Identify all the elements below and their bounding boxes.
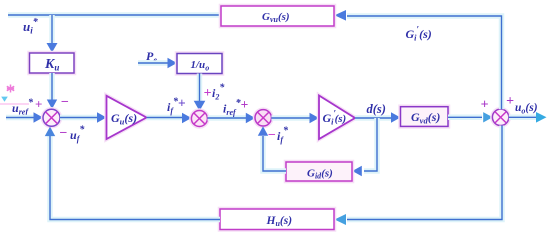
wire: G_vd output to summing junction 4 <box>448 112 493 122</box>
summing junction 3 <box>255 110 271 126</box>
stray mark: pink ghost line above u_ref input <box>0 103 29 105</box>
amplifier block G_u(s) <box>107 96 147 139</box>
wire: u_o tap up to G_vu(s) <box>335 10 502 109</box>
wire: u_o tap down to H_u(s) <box>335 126 503 226</box>
wire: P_e arrow into 1/u_o <box>138 58 177 68</box>
summing junction 4 <box>492 109 508 125</box>
svg-text:Gi′(s): Gi′(s) <box>406 24 432 42</box>
wire: junction 3 to G_i'(s) <box>271 113 319 123</box>
wire: junction 2 to junction 3 <box>208 113 256 123</box>
wire: junction 1 to G_u(s) <box>60 112 107 122</box>
wire: G_u output to summing junction 2 <box>147 113 192 123</box>
svg-text:uo(s): uo(s) <box>515 102 538 115</box>
svg-text:−: − <box>268 128 276 143</box>
wire: u_ref input arrow into junction 1 <box>6 112 43 123</box>
wire: H_u output back to junction 1 <box>45 127 220 220</box>
wire: u_i drop from top line into K_u <box>47 15 58 53</box>
wire: d(s) tap down to G_id <box>352 118 377 176</box>
svg-text:d(s): d(s) <box>367 102 386 116</box>
block 1/u_o <box>177 54 222 74</box>
summing junction 2 <box>191 111 207 127</box>
block G_id(s) <box>286 162 352 181</box>
svg-text:Gu(s): Gu(s) <box>111 111 137 127</box>
stray mark: cyan arrowhead artifact at left edge <box>1 97 8 102</box>
svg-text:+: + <box>481 98 489 113</box>
wire: G_vu(s) output, top line left to u_i tap <box>8 12 221 18</box>
svg-text:−: − <box>61 95 69 110</box>
svg-text:−: − <box>59 126 67 141</box>
block G_vd(s) <box>401 107 449 127</box>
summing junction 1 <box>43 109 60 126</box>
wire: G_id output to junction 3 <box>258 126 286 171</box>
block G_vu(s) <box>221 6 334 26</box>
wire: G_i' output to G_vd with d(s) node <box>355 112 401 122</box>
amplifier block G_i'(s) <box>319 96 355 140</box>
svg-text:+: + <box>204 86 212 101</box>
wire: K_u output down to summing junction 1 <box>47 73 57 109</box>
wire: 1/u_o output down to summing junction 2 <box>194 74 206 112</box>
stray mark: pink asterisk artifact at left edge <box>7 85 14 93</box>
svg-text:+: + <box>506 94 514 109</box>
block H_u(s) <box>220 209 334 230</box>
wire: junction 4 output u_o(s) <box>509 112 547 123</box>
block K_u <box>30 53 75 73</box>
